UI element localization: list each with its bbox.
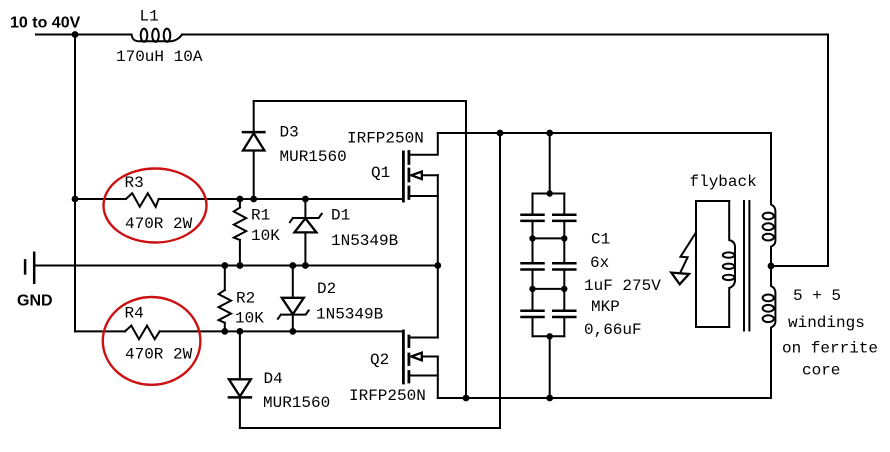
highlight ellipse around R3 xyxy=(104,169,207,243)
wire C1 top link xyxy=(549,133,551,194)
wire Q2 gate row left segment xyxy=(75,330,125,332)
wire left bus xyxy=(74,35,76,332)
svg-text:Q2: Q2 xyxy=(370,351,389,369)
node C1 top tap on drain rail xyxy=(546,130,553,137)
svg-text:0,66uF: 0,66uF xyxy=(584,321,642,339)
svg-text:D3: D3 xyxy=(280,124,299,142)
node C1 bottom tap on bottom rail xyxy=(546,395,553,402)
transformer core xyxy=(744,201,749,331)
resistor R4 xyxy=(125,326,160,340)
inductor L1 xyxy=(132,29,183,42)
wire Q2 gate row right segment xyxy=(160,330,403,332)
diode D4 xyxy=(229,331,251,428)
resistor R2 xyxy=(219,266,231,332)
node R2 bottom xyxy=(221,328,228,335)
svg-text:windings: windings xyxy=(788,314,865,332)
svg-text:D2: D2 xyxy=(317,280,336,298)
node source gnd junction xyxy=(434,262,441,269)
svg-text:5 + 5: 5 + 5 xyxy=(793,287,841,305)
wire GND row xyxy=(35,265,438,267)
wire top rail right of L1 to right edge xyxy=(182,34,828,36)
wire D3 link to bottom rail xyxy=(254,101,466,398)
node D2 bottom xyxy=(289,328,296,335)
node D1 bottom xyxy=(302,262,309,269)
diode D1 zener xyxy=(290,199,322,266)
wire C1 bottom link xyxy=(549,336,551,398)
svg-text:470R 2W: 470R 2W xyxy=(125,346,193,364)
svg-text:C1: C1 xyxy=(591,231,610,249)
node D4 link on drain rail xyxy=(497,130,504,137)
flyback secondary 5+5 winding xyxy=(763,133,776,398)
transistor Q1 xyxy=(403,133,437,266)
node R1 top xyxy=(237,196,244,203)
spark gap arrow xyxy=(671,234,695,285)
svg-text:Q1: Q1 xyxy=(371,164,390,182)
svg-text:IRFP250N: IRFP250N xyxy=(347,130,424,148)
svg-text:MKP: MKP xyxy=(591,298,620,316)
svg-text:D1: D1 xyxy=(331,207,350,225)
svg-text:6x: 6x xyxy=(590,254,609,272)
wire Q1 gate row left segment xyxy=(75,198,126,200)
svg-text:MUR1560: MUR1560 xyxy=(280,148,347,166)
svg-text:on ferrite: on ferrite xyxy=(782,340,878,358)
svg-text:170uH 10A: 170uH 10A xyxy=(116,48,203,66)
wire top rail left of L1 xyxy=(36,34,132,36)
svg-text:D4: D4 xyxy=(264,370,283,388)
svg-text:flyback: flyback xyxy=(690,173,757,191)
node D3 link on bottom rail xyxy=(463,395,470,402)
node R1 bottom xyxy=(237,262,244,269)
node D4 top xyxy=(237,328,244,335)
node secondary center tap xyxy=(768,263,775,270)
transistor Q2 xyxy=(403,266,437,399)
flyback HV loop and primary winding xyxy=(696,201,735,327)
svg-text:IRFP250N: IRFP250N xyxy=(349,387,426,405)
svg-text:MUR1560: MUR1560 xyxy=(263,394,330,412)
svg-text:R4: R4 xyxy=(125,305,144,323)
svg-text:1N5349B: 1N5349B xyxy=(331,232,398,250)
capacitor C1 bank xyxy=(522,190,576,339)
svg-text:10K: 10K xyxy=(235,310,264,328)
node D1 top xyxy=(302,196,309,203)
svg-text:L1: L1 xyxy=(140,8,159,26)
resistor R1 xyxy=(234,199,246,266)
diode D3 xyxy=(243,101,264,199)
node D2 top xyxy=(289,262,296,269)
svg-text:470R 2W: 470R 2W xyxy=(125,215,193,233)
svg-text:10K: 10K xyxy=(251,227,280,245)
node R2 top xyxy=(221,262,228,269)
wire D4 link to drain rail xyxy=(240,133,500,428)
svg-text:R2: R2 xyxy=(236,290,255,308)
node input junction on top rail xyxy=(72,31,79,38)
node D3 anode tap xyxy=(250,196,257,203)
svg-text:R1: R1 xyxy=(251,207,270,225)
node bus to gate1 row xyxy=(72,196,79,203)
svg-text:GND: GND xyxy=(17,293,53,310)
highlight ellipse around R4 xyxy=(103,297,201,385)
wire Q1 gate row right segment xyxy=(159,198,403,200)
wire bottom rail xyxy=(438,397,771,399)
ground terminal symbol xyxy=(25,253,34,283)
wire center tap to right edge xyxy=(771,265,828,267)
svg-text:1uF 275V: 1uF 275V xyxy=(584,277,661,295)
svg-text:R3: R3 xyxy=(125,174,144,192)
wire drain rail xyxy=(438,132,771,134)
wire right edge down to center tap xyxy=(827,35,829,267)
svg-text:1N5349B: 1N5349B xyxy=(316,306,383,324)
resistor R3 xyxy=(126,193,159,207)
svg-text:10 to 40V: 10 to 40V xyxy=(10,15,81,32)
svg-text:core: core xyxy=(802,362,840,380)
diode D2 zener xyxy=(278,266,309,332)
